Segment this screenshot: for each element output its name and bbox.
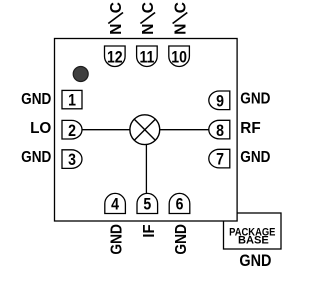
svg-text:C: C (140, 2, 157, 13)
svg-text:6: 6 (176, 196, 184, 214)
svg-text:8: 8 (216, 122, 224, 140)
svg-text:11: 11 (139, 48, 154, 66)
wire RF (mixer to pin 8) (145, 129, 210, 131)
svg-text:4: 4 (111, 196, 119, 214)
pin 6 (169, 193, 190, 213)
svg-text:IF: IF (141, 224, 158, 237)
wire IF (mixer to pin 5) (145, 135, 147, 195)
label GND (pin 1) (21, 91, 51, 108)
package base pad (exposed pad, behind package) (224, 213, 282, 249)
mixer U1 (circle with X) (130, 115, 160, 145)
pin 11 (137, 46, 158, 67)
ground label GND (package base) (239, 252, 271, 270)
label GND (pin 7) (240, 149, 270, 166)
svg-text:5: 5 (143, 196, 151, 214)
pin 1 (62, 90, 82, 109)
pin 5 (137, 193, 158, 213)
package outline (55, 39, 238, 222)
svg-text:N: N (108, 24, 125, 35)
svg-text:2: 2 (68, 122, 76, 140)
pin 4 (105, 193, 126, 213)
label GND (pin 3) (21, 149, 51, 166)
pin 2 (62, 120, 82, 140)
label N/C (pin 11) (140, 2, 157, 35)
label N/C (pin 12) (108, 2, 125, 35)
label GND (pin 9) (240, 91, 270, 108)
pin 10 (169, 46, 190, 67)
pin 8 (209, 120, 230, 140)
label N/C (pin 10) (172, 2, 189, 35)
svg-text:GND: GND (109, 224, 126, 254)
label GND (pin 6) (173, 224, 190, 254)
pin 12 (105, 46, 126, 67)
pin 9 (209, 91, 230, 111)
svg-text:GND: GND (21, 149, 51, 166)
svg-text:BASE: BASE (238, 234, 269, 246)
svg-text:GND: GND (240, 149, 270, 166)
label GND (pin 4) (109, 224, 126, 254)
svg-text:GND: GND (173, 224, 190, 254)
svg-text:GND: GND (240, 91, 270, 108)
svg-text:N: N (172, 24, 189, 35)
svg-text:N: N (140, 24, 157, 35)
svg-text:3: 3 (68, 151, 76, 169)
svg-text:C: C (108, 2, 125, 13)
svg-text:9: 9 (216, 92, 224, 110)
svg-text:GND: GND (239, 252, 271, 270)
svg-text:C: C (172, 2, 189, 13)
pin 7 (209, 149, 230, 169)
wire LO (pin 2 to mixer) (81, 129, 145, 131)
svg-text:GND: GND (21, 91, 51, 108)
svg-text:LO: LO (30, 120, 51, 137)
svg-text:12: 12 (107, 48, 123, 66)
svg-text:7: 7 (216, 151, 224, 169)
svg-text:10: 10 (171, 48, 187, 66)
package base label (229, 227, 275, 246)
label LO (pin 2) (30, 120, 51, 137)
pin 1 indicator dot (73, 67, 88, 82)
svg-text:1: 1 (68, 92, 76, 110)
label IF (pin 5) (141, 224, 158, 237)
svg-text:RF: RF (240, 120, 260, 137)
label RF (pin 8) (240, 120, 260, 137)
pin 3 (62, 150, 82, 170)
